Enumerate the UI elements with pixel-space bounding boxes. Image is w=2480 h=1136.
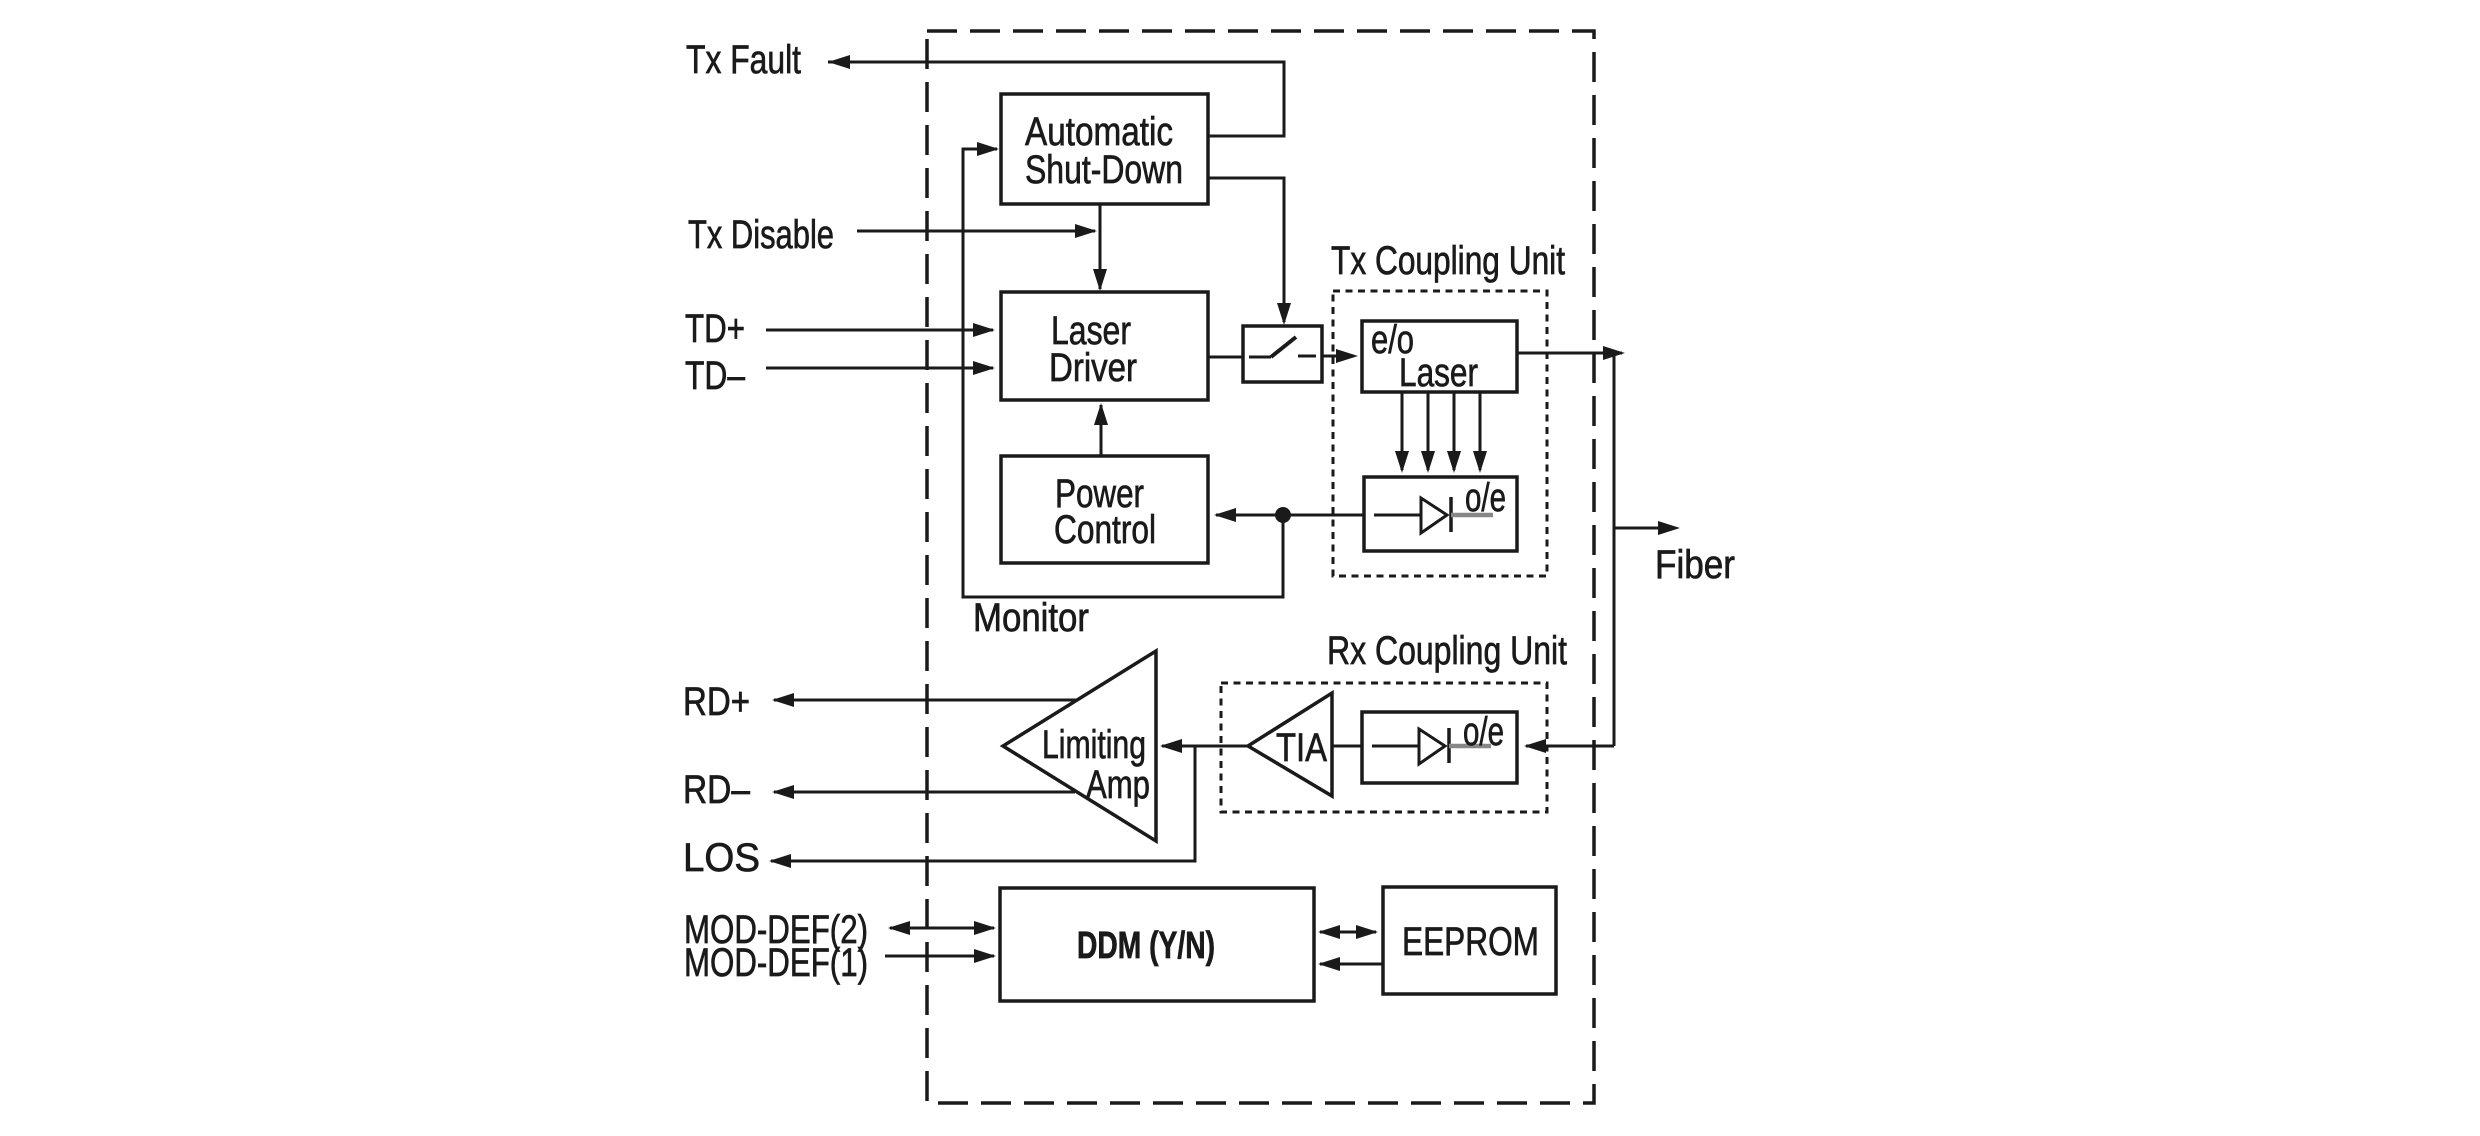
svg-text:EEPROM: EEPROM bbox=[1402, 920, 1539, 964]
svg-text:Tx Fault: Tx Fault bbox=[686, 38, 801, 82]
svg-text:RD+: RD+ bbox=[683, 680, 750, 724]
svg-text:LOS: LOS bbox=[683, 836, 760, 880]
svg-text:Fiber: Fiber bbox=[1655, 543, 1735, 587]
svg-text:DDM (Y/N): DDM (Y/N) bbox=[1077, 925, 1215, 967]
svg-text:Tx Disable: Tx Disable bbox=[688, 213, 834, 257]
svg-text:Limiting: Limiting bbox=[1042, 723, 1146, 767]
svg-text:MOD-DEF(1): MOD-DEF(1) bbox=[684, 941, 868, 985]
svg-text:Control: Control bbox=[1054, 508, 1156, 552]
svg-text:Amp: Amp bbox=[1086, 763, 1150, 807]
svg-text:Monitor: Monitor bbox=[973, 596, 1089, 640]
svg-text:RD–: RD– bbox=[683, 768, 751, 812]
svg-text:TD+: TD+ bbox=[685, 307, 745, 351]
svg-text:Driver: Driver bbox=[1049, 346, 1137, 390]
svg-text:Tx Coupling Unit: Tx Coupling Unit bbox=[1331, 239, 1565, 283]
svg-text:o/e: o/e bbox=[1463, 710, 1504, 754]
svg-text:TD–: TD– bbox=[685, 354, 746, 398]
svg-text:Shut-Down: Shut-Down bbox=[1025, 148, 1183, 192]
svg-text:Rx Coupling Unit: Rx Coupling Unit bbox=[1327, 629, 1567, 673]
svg-text:Laser: Laser bbox=[1399, 351, 1478, 395]
svg-text:o/e: o/e bbox=[1465, 476, 1506, 520]
svg-text:TIA: TIA bbox=[1276, 726, 1327, 770]
